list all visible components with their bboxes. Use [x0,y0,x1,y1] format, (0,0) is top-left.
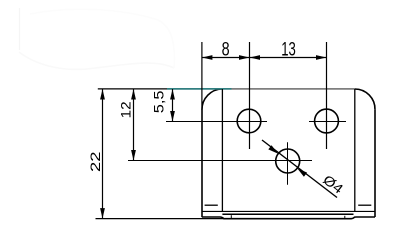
centerline vertical through right hole / extension for dim 13 [326,42,328,149]
part: flange notch tick left [230,215,232,218]
dimension line 5,5 [172,89,174,122]
centerline horizontal through center hole / extension for dim 12 [128,160,312,162]
arrow dim22 bottom [100,208,105,219]
centerline vertical through center hole [287,142,289,185]
arrow dim5,5 bottom [170,111,175,122]
arrow dim8 left [202,55,213,60]
centerline vertical through left hole / extension for dim 8-13 [249,42,251,149]
arrow dim13 right [316,55,327,60]
hole right (top) [315,109,339,133]
arrow Ø4 lower (points at hole edge) [297,168,307,177]
extension line left edge (for dim 8) [201,42,203,110]
arrow dim12 bottom [131,150,136,161]
part: top-left corner arc [202,89,222,110]
centerline horizontal through right hole [309,121,346,123]
dimension line 8-13 [202,57,327,59]
arrow dim13 left [250,55,261,60]
part: left bend tangent line [221,89,223,212]
part: bottom outline with side-flange steps [202,217,375,219]
hole center (lower) [276,149,300,173]
arrow dim12 top [131,89,136,100]
part: right bend tangent line [354,89,356,212]
part: bottom flange inner edge [222,213,353,215]
dimension line 22 [102,89,104,219]
part: flange notch tick right [344,216,346,220]
part: top edge highlighted (teal) [167,88,232,90]
leader line for Ø4 [262,140,337,198]
ghost preview of part (faint, top-left) [19,8,174,69]
hole left (top) [237,109,261,133]
svg-text:5,5: 5,5 [151,91,166,114]
part: right flange bend dash [358,204,371,206]
part: left flange bend dash [205,204,218,206]
svg-text:13: 13 [281,40,296,61]
svg-text:12: 12 [118,101,133,118]
extension line bottom (for 22) [96,218,225,220]
part: right outer edge [374,110,376,217]
part: left outer edge [201,110,203,217]
svg-text:8: 8 [222,40,230,61]
extension line top (for 22/12/5,5) [98,88,167,90]
arrow Ø4 upper (points at hole edge) [268,145,278,154]
arrow dim8 right [239,55,250,60]
centerline horizontal through left hole / extension for dim 5,5 [166,121,267,123]
svg-text:22: 22 [88,152,103,173]
part: top edge (gray) [232,88,355,90]
part: bottom flange top edge [202,210,375,212]
dimension line 12 [133,89,135,161]
arrow dim22 top [100,89,105,100]
arrow dim5,5 top [170,89,175,100]
part: top-right corner arc [355,89,375,110]
